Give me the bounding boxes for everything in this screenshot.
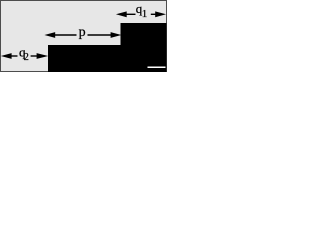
- dimension q2: [1, 53, 48, 59]
- left arrow: [116, 11, 127, 17]
- svg-text:p: p: [79, 25, 86, 40]
- left arrow: [44, 32, 55, 38]
- right arrow: [155, 11, 166, 17]
- white scale dash: [148, 66, 166, 68]
- right arrow: [37, 53, 49, 59]
- left arrow: [1, 53, 12, 59]
- right arrow: [111, 32, 122, 38]
- dimension q1: [116, 11, 166, 17]
- step-profile diagram: [0, 0, 167, 72]
- step structure (black profile): [48, 23, 167, 72]
- svg-text:1: 1: [142, 8, 148, 20]
- border frame: [1, 1, 167, 72]
- dimension p: [44, 32, 121, 38]
- svg-text:2: 2: [24, 52, 29, 63]
- background: [0, 0, 167, 72]
